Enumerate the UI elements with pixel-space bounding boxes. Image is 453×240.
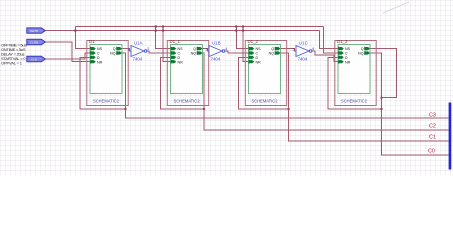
svg-text:7404: 7404: [133, 56, 143, 61]
svg-text:D: D: [256, 56, 259, 60]
svg-text:Q: Q: [113, 47, 116, 51]
svg-text:D: D: [178, 56, 181, 60]
svg-text:NR: NR: [178, 60, 184, 64]
svg-text:4: 4: [225, 47, 227, 51]
svg-text:NQ: NQ: [191, 52, 197, 56]
svg-text:3: 3: [206, 47, 208, 51]
svg-text:NS: NS: [256, 47, 262, 51]
svg-text:D: D: [97, 56, 100, 60]
svg-text:U1C: U1C: [299, 41, 308, 46]
svg-text:SCHEMATIC2: SCHEMATIC2: [174, 98, 201, 103]
svg-text:Q: Q: [193, 47, 196, 51]
svg-text:SCHEMATIC2: SCHEMATIC2: [93, 98, 120, 103]
svg-text:SETB: SETB: [30, 29, 38, 33]
svg-text:D1: D1: [89, 39, 95, 44]
svg-text:D1_3: D1_3: [337, 39, 348, 44]
svg-text:NR: NR: [97, 60, 103, 64]
svg-text:NR: NR: [345, 60, 351, 64]
svg-text:5: 5: [293, 47, 295, 51]
svg-text:7404: 7404: [211, 56, 221, 61]
svg-text:NS: NS: [345, 47, 351, 51]
svg-text:SCHEMATIC2: SCHEMATIC2: [252, 98, 279, 103]
svg-text:C3: C3: [429, 112, 436, 118]
svg-text:NQ: NQ: [358, 52, 364, 56]
svg-text:CLRB: CLRB: [30, 41, 38, 45]
svg-text:U1B: U1B: [212, 41, 221, 46]
svg-text:NS: NS: [97, 47, 103, 51]
svg-text:6: 6: [312, 47, 314, 51]
svg-text:Q: Q: [361, 47, 364, 51]
svg-text:D: D: [345, 56, 348, 60]
svg-text:1: 1: [128, 47, 130, 51]
svg-text:D1_1: D1_1: [170, 39, 181, 44]
svg-text:2: 2: [147, 47, 149, 51]
svg-text:D1_2: D1_2: [248, 39, 259, 44]
svg-text:C0: C0: [428, 149, 435, 155]
svg-text:NQ: NQ: [110, 52, 116, 56]
svg-text:NS: NS: [178, 47, 184, 51]
svg-text:NQ: NQ: [269, 52, 275, 56]
svg-text:7404: 7404: [298, 56, 308, 61]
svg-text:U1A: U1A: [134, 41, 143, 46]
svg-text:OPPVAL = 1: OPPVAL = 1: [1, 61, 23, 66]
svg-text:SCHEMATIC2: SCHEMATIC2: [341, 98, 368, 103]
svg-text:CLK: CLK: [31, 58, 38, 62]
svg-text:C2: C2: [429, 124, 436, 130]
svg-text:C1: C1: [429, 135, 436, 141]
svg-text:Q: Q: [271, 47, 274, 51]
svg-text:NR: NR: [256, 60, 262, 64]
